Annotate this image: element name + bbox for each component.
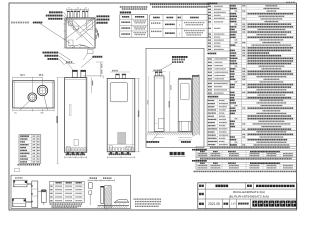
- specification table header column line: [241, 5, 243, 147]
- bottom view body outline: [13, 81, 54, 108]
- bottom view label exhaust port: [48, 58, 50, 60]
- bottom view dimension extension lines: [12, 77, 14, 81]
- installation wall hatched band: [103, 186, 105, 209]
- reference drawing enclosure box: [146, 48, 204, 147]
- svg-text:25: 25: [68, 8, 70, 10]
- middle column table section B: [208, 53, 210, 55]
- hot water mat header stubs: [122, 16, 124, 18]
- svg-text:(BL:RUFH-EP2406SAT2-3(A)): (BL:RUFH-EP2406SAT2-3(A)): [229, 194, 269, 198]
- top view right dimension number column: [95, 28, 98, 33]
- reference ground line with hatching: [148, 131, 193, 133]
- reference side sub-view dim text above: [154, 70, 155, 72]
- side view boxed exhaust label: [92, 56, 94, 58]
- front view bottom dimension line: [107, 156, 135, 158]
- reference side sub-view body: [154, 76, 164, 131]
- top view leader cross lines: [64, 12, 75, 25]
- side view top pipe stubs: [73, 70, 78, 77]
- lower small box with pipe: [89, 191, 92, 194]
- reference front sub-view body: [178, 79, 191, 131]
- top view right label gas connection: [97, 22, 99, 24]
- side view inner right edge line: [85, 78, 87, 153]
- option table row2 stubs: [151, 31, 152, 32]
- note block line4: [135, 206, 136, 207]
- wall bracket small box: [89, 183, 93, 189]
- top view left dimension line: [64, 18, 66, 48]
- riser pipe column: [32, 181, 38, 208]
- front view lower details: [109, 146, 112, 150]
- caption installation reference drawing: [170, 152, 173, 155]
- option table header stubs: [153, 17, 155, 19]
- svg-text:25: 25: [77, 8, 79, 10]
- units mm caption: [286, 2, 288, 4]
- top view caption screw hole detail: [11, 22, 13, 24]
- side view top inner line: [65, 79, 87, 81]
- connection size table: [19, 135, 41, 164]
- reference piping box detail: [158, 119, 164, 129]
- side view internal details: [69, 105, 71, 116]
- bath tub upper label: [15, 177, 16, 178]
- hot water mat table: [120, 15, 148, 38]
- front view body outline: [107, 79, 135, 152]
- title block outline: [198, 183, 297, 209]
- top view top mounting band: [66, 17, 95, 19]
- bottom view label leader lines: [59, 53, 71, 60]
- reference side sub-view top stubs: [155, 72, 158, 76]
- reference drawing label exhaust top line1: [172, 56, 174, 58]
- svg-text:68.5: 68.5: [39, 75, 44, 77]
- title block date label: [199, 203, 201, 205]
- side view bottom connection stubs: [67, 152, 69, 154]
- installation diagram water level table: [50, 181, 85, 202]
- bottom view exhaust circle: [37, 85, 47, 95]
- dim column between side and front view: [100, 62, 102, 77]
- side view bottom dimension line: [65, 156, 87, 158]
- option table row1 stubs: [151, 22, 152, 23]
- front view height dimension line: [138, 79, 140, 152]
- side view top dim line to front view: [83, 75, 103, 77]
- reference left dimension line: [147, 76, 149, 131]
- reference clearance dim label: [181, 141, 183, 143]
- reference wall section hatched: [192, 75, 199, 77]
- front view inner panel rounded rect: [110, 83, 127, 102]
- top view bottom notch details: [70, 46, 74, 48]
- top centre note line1: [150, 4, 152, 6]
- bath tub lower: [12, 199, 25, 207]
- gas consumption table LP: [196, 162, 297, 169]
- hot water mat note line1: [120, 6, 121, 8]
- note block line3: [135, 203, 136, 204]
- installation dim line top: [88, 179, 115, 181]
- title block name label: [199, 185, 201, 187]
- hot water mat caption: [120, 12, 122, 14]
- reference front sub-view stand shelf: [178, 120, 191, 122]
- middle column table section A: [207, 5, 230, 51]
- svg-text:25: 25: [85, 8, 87, 10]
- top view label joint water supply: [49, 11, 51, 13]
- option parts table: [150, 15, 209, 38]
- front view top stubs: [116, 74, 119, 79]
- connection table note: [18, 164, 19, 166]
- top view label circulation fitting: [46, 15, 48, 17]
- side view height dimension label 750: [56, 116, 57, 123]
- top view label heating connection: [33, 22, 35, 24]
- hot water mat rows stubs: [121, 22, 122, 23]
- water level table notes: [50, 203, 51, 204]
- pipe riser to pump: [38, 190, 42, 192]
- side view height dimension line: [57, 78, 59, 164]
- pipes tub to riser: [27, 182, 32, 184]
- specification table section divider: [230, 98, 297, 100]
- top view right label bath outgoing: [97, 15, 99, 17]
- side view small dim above stubs: [65, 63, 75, 65]
- side view right dim 153: [91, 78, 93, 93]
- bottom view drain circle: [28, 93, 37, 102]
- ground line with hatching: [98, 204, 130, 206]
- front view right edge double line: [132, 79, 134, 152]
- reference front sub-view panel: [181, 83, 190, 100]
- note block line1: [134, 199, 135, 200]
- small leftover rect above install box: [15, 168, 20, 172]
- title block company name Rinnai: [252, 201, 257, 207]
- gas consumption bridge row: [196, 146, 297, 149]
- side view body outline: [65, 78, 87, 153]
- front view bottom connection stubs: [110, 152, 112, 154]
- title block row2 divider: [205, 189, 207, 199]
- mounted heater column: [101, 187, 104, 204]
- top view pipe stubs: [67, 11, 69, 18]
- svg-text:82.5: 82.5: [20, 75, 25, 77]
- front view bottom labels: [109, 153, 111, 155]
- reference front sub-view top cap: [178, 78, 191, 80]
- middle column table section D: [208, 96, 210, 98]
- gas table label city gas: [192, 149, 194, 151]
- reference drawing label exhaust top line2: [172, 59, 174, 61]
- side view bottom fitting row: [66, 148, 68, 152]
- specification table outline: [230, 5, 297, 147]
- title block model label: [199, 193, 201, 195]
- bottom view inner edge lines: [13, 81, 15, 108]
- title block row3 dividers: [205, 199, 207, 209]
- gas table label LP gas: [192, 160, 194, 162]
- title block product name: [256, 185, 258, 187]
- gas consumption single row: [196, 157, 297, 159]
- hot water mat note line2: [122, 8, 123, 10]
- side view bottom labels: [66, 154, 68, 156]
- pump cylinder: [41, 190, 46, 202]
- middle column table section C: [207, 82, 230, 95]
- installation diagram enclosure: [11, 175, 131, 208]
- spec note line: [194, 171, 195, 173]
- note block line2: [135, 201, 136, 202]
- middle column table title: [208, 2, 210, 4]
- top view right label bath return: [97, 19, 99, 21]
- top view unit body outline: [66, 18, 95, 48]
- front view rating plate: [118, 133, 126, 145]
- title block hinmei label: [247, 185, 249, 187]
- reference stand label: [147, 141, 149, 143]
- side view exhaust dim small box: [87, 50, 93, 54]
- svg-text:2021.05: 2021.05: [208, 202, 220, 206]
- top view label hot water outlet: [48, 18, 50, 20]
- bottom view lower dimension line: [13, 109, 54, 111]
- top view right dim line: [95, 27, 97, 46]
- bottom view label drain connection: [45, 55, 47, 57]
- bottom view label circulation fitting: [43, 52, 45, 54]
- top view bottom curve detail: [72, 45, 91, 48]
- front view small dim above: [110, 71, 130, 73]
- water level table header stubs: [56, 182, 57, 184]
- washing area basin: [114, 200, 129, 203]
- bath tub upper: [14, 180, 28, 187]
- bottom view leader lines to lower labels: [20, 101, 30, 111]
- reference drawing label exhaust top line3: [172, 61, 174, 63]
- top view dimension line above stubs: [67, 9, 89, 11]
- outer border frame: [9, 3, 297, 210]
- title block scale label: [224, 203, 226, 205]
- reference inter-view dimension line: [169, 71, 171, 132]
- specification table rows: [230, 5, 231, 6]
- front view bottom fitting row: [109, 148, 111, 152]
- title block drawing name: [216, 185, 218, 188]
- reference bottom dim line: [154, 137, 164, 139]
- gas consumption table city: [196, 151, 297, 157]
- svg-text:1:10: 1:10: [230, 202, 236, 206]
- top centre note line2: [152, 6, 154, 8]
- title block row1 dividers: [205, 183, 207, 189]
- top view inner component rects: [68, 21, 72, 25]
- reference drawing label leader: [158, 64, 173, 72]
